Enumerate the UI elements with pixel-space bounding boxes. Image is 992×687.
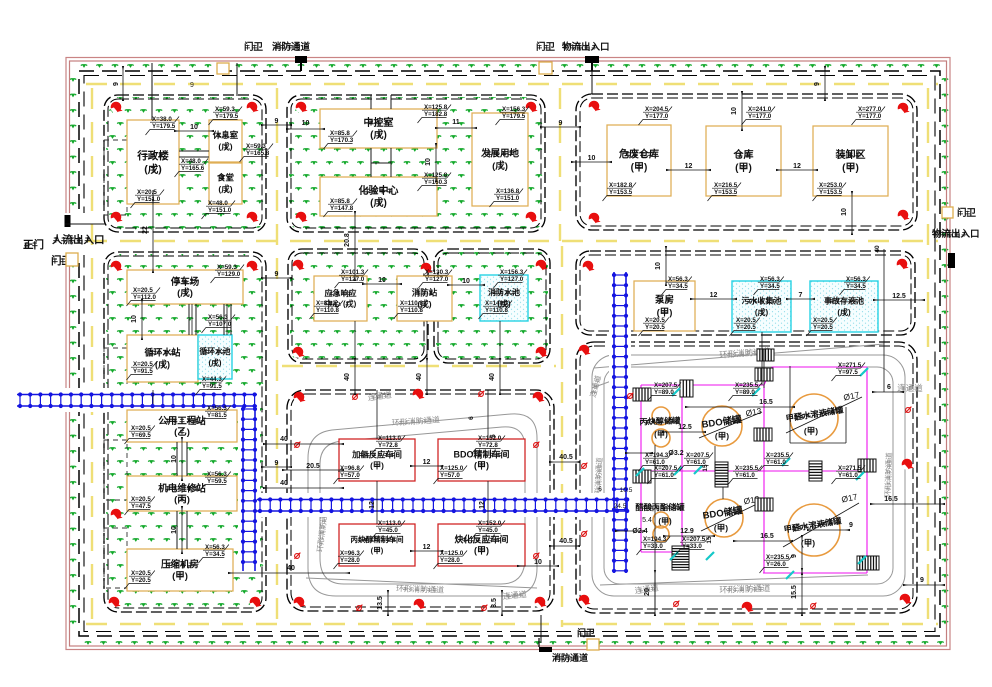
block E1 outline <box>288 249 428 363</box>
svg-text:X=235.5: X=235.5 <box>735 382 759 389</box>
svg-text:X=130.3: X=130.3 <box>425 269 449 276</box>
coordinate label X=271.5 Y=61.0 <box>832 466 866 485</box>
svg-text:X=20.5: X=20.5 <box>133 287 153 294</box>
site boundary (pink double line) <box>66 58 950 650</box>
svg-text:12.5: 12.5 <box>678 424 692 431</box>
fire hydrant H9 <box>589 101 601 112</box>
svg-text:6: 6 <box>887 384 891 391</box>
coordinate label X=44.3 Y=91.5 <box>196 377 226 396</box>
coordinate label X=56.3 Y=81.5 <box>201 406 231 425</box>
svg-text:12.5: 12.5 <box>892 293 906 300</box>
svg-text:X=113.0: X=113.0 <box>378 520 401 527</box>
coordinate label X=253.0 Y=153.5 <box>813 183 847 202</box>
svg-text:门卫: 门卫 <box>957 207 977 219</box>
svg-text:X=83.3: X=83.3 <box>316 300 336 307</box>
svg-text:正门: 正门 <box>23 238 44 251</box>
svg-text:X=271.5: X=271.5 <box>838 362 862 369</box>
svg-text:40: 40 <box>489 373 496 381</box>
lawn block A <box>106 97 264 230</box>
svg-text:12: 12 <box>423 544 431 551</box>
pipe rack vertical 2 (tank farm) <box>612 272 628 573</box>
svg-text:Y=153.5: Y=153.5 <box>819 189 843 196</box>
svg-text:X=56.3: X=56.3 <box>207 471 227 478</box>
svg-text:X=235.5: X=235.5 <box>735 465 759 472</box>
svg-text:泵房: 泵房 <box>654 294 674 306</box>
hose point O3 <box>294 442 300 448</box>
svg-text:9: 9 <box>814 82 821 86</box>
building 机电维修站 <box>127 476 237 511</box>
loading pad P4 <box>757 349 774 361</box>
building 食堂 <box>209 163 242 204</box>
hose point O11 <box>673 601 679 607</box>
svg-text:X=56.3: X=56.3 <box>205 544 225 551</box>
svg-text:Y=34.5: Y=34.5 <box>205 551 225 558</box>
svg-text:9: 9 <box>113 82 120 86</box>
svg-text:12: 12 <box>685 163 693 170</box>
svg-text:Y=170.3: Y=170.3 <box>330 137 354 144</box>
coordinate label X=56.3 Y=34.5 <box>840 277 870 296</box>
loading pad P12 <box>857 556 879 570</box>
svg-text:Y=165.8: Y=165.8 <box>246 150 270 157</box>
block F outline (production) <box>287 390 554 611</box>
svg-text:16.5: 16.5 <box>884 496 898 503</box>
svg-text:X=59.3: X=59.3 <box>217 264 237 271</box>
svg-text:门卫: 门卫 <box>244 41 264 53</box>
coordinate label X=20.5 Y=69.5 <box>125 426 155 445</box>
fire hydrant H5 <box>296 102 308 113</box>
svg-text:X=20.5: X=20.5 <box>813 317 833 324</box>
tank BDO储罐 2 <box>705 499 743 537</box>
svg-text:40: 40 <box>416 373 423 381</box>
svg-text:9: 9 <box>275 460 279 467</box>
svg-text:门卫: 门卫 <box>577 627 595 638</box>
coordinate label X=156.3 Y=127.0 <box>494 270 528 289</box>
svg-text:X=101.3: X=101.3 <box>341 269 365 276</box>
fire hydrant H1 <box>111 102 123 113</box>
svg-text:X=59.3: X=59.3 <box>215 106 235 113</box>
coordinate label X=20.5 Y=47.5 <box>125 497 155 516</box>
svg-text:X=20.5: X=20.5 <box>736 317 756 324</box>
svg-text:Y=34.5: Y=34.5 <box>668 283 688 290</box>
survey tick T7 <box>856 472 864 480</box>
building 化验中心 <box>320 177 437 216</box>
coordinate label X=20.5 Y=151.0 <box>131 190 165 209</box>
coordinate label X=56.3 Y=34.5 <box>662 277 692 296</box>
svg-text:X=56.3: X=56.3 <box>207 405 227 412</box>
coordinate label X=101.3 Y=127.0 <box>335 270 369 289</box>
svg-text:Y=72.8: Y=72.8 <box>478 442 498 449</box>
tank 甲醛水溶液储罐 1 <box>790 394 838 442</box>
svg-text:Y=165.6: Y=165.6 <box>181 165 205 172</box>
gate right 门卫/物流出入口 <box>942 207 953 218</box>
coordinate label X=152.0 Y=72.8 <box>472 436 506 455</box>
svg-text:物流出入口: 物流出入口 <box>932 228 980 240</box>
fire hydrant H6 <box>526 102 538 113</box>
coordinate label X=140.3 Y=110.8 <box>479 301 513 320</box>
hose point O7 <box>356 605 362 611</box>
svg-text:12: 12 <box>793 163 801 170</box>
fire hydrant H2 <box>247 102 259 113</box>
coordinate label X=235.5 Y=61.0 <box>760 453 794 472</box>
svg-text:化验中心: 化验中心 <box>359 184 399 197</box>
svg-text:Y=182.8: Y=182.8 <box>424 111 448 118</box>
svg-text:Y=151.0: Y=151.0 <box>137 196 161 203</box>
survey tick T9 <box>706 552 714 560</box>
hose point O13 <box>905 407 911 413</box>
svg-text:消防通道: 消防通道 <box>272 41 311 53</box>
coordinate label X=85.8 Y=147.8 <box>324 199 358 218</box>
svg-text:X=207.5: X=207.5 <box>654 382 678 389</box>
coordinate label X=96.3 Y=28.0 <box>334 551 364 570</box>
svg-text:X=253.0: X=253.0 <box>819 182 843 189</box>
svg-text:X=194.3: X=194.3 <box>645 452 669 459</box>
svg-text:Y=151.0: Y=151.0 <box>496 195 520 202</box>
svg-text:10: 10 <box>378 277 386 284</box>
svg-text:10: 10 <box>302 120 310 127</box>
fire hydrant H10 <box>898 103 910 114</box>
svg-text:Y=47.5: Y=47.5 <box>131 503 151 510</box>
lane labels (gray) <box>392 414 441 427</box>
coordinate label X=59.3 Y=165.8 <box>240 144 274 163</box>
fire hydrant H17 <box>250 597 262 608</box>
svg-text:40: 40 <box>280 480 288 487</box>
coordinate label X=59.3 Y=179.5 <box>209 107 243 126</box>
svg-text:X=235.5: X=235.5 <box>766 452 790 459</box>
svg-text:X=204.5: X=204.5 <box>645 106 669 113</box>
svg-text:X=152.0: X=152.0 <box>478 520 502 527</box>
svg-text:X=182.8: X=182.8 <box>609 182 633 189</box>
svg-text:丙炔醇储罐: 丙炔醇储罐 <box>639 415 681 426</box>
pipe rack vertical 1 <box>241 406 257 571</box>
fire hydrant H31 <box>579 345 591 356</box>
loading pad P6 <box>715 462 728 487</box>
fire hydrant H4 <box>247 212 259 223</box>
svg-text:10: 10 <box>190 124 198 131</box>
svg-text:X=38.0: X=38.0 <box>152 116 172 123</box>
coordinate label X=20.5 Y=20.5 <box>807 318 837 337</box>
svg-text:12: 12 <box>710 292 718 299</box>
svg-text:40.5: 40.5 <box>559 538 573 545</box>
svg-text:X=136.8: X=136.8 <box>496 188 520 195</box>
svg-text:Y=20.5: Y=20.5 <box>736 324 756 331</box>
svg-text:13.5: 13.5 <box>377 596 384 610</box>
svg-text:Y=110.8: Y=110.8 <box>485 307 508 314</box>
building 仓库 <box>706 126 781 196</box>
svg-text:X=235.5: X=235.5 <box>766 554 790 561</box>
fire hydrant H33 <box>900 594 912 605</box>
svg-text:X=156.3: X=156.3 <box>502 106 526 113</box>
loading pad P10 <box>858 459 876 472</box>
svg-text:Y=160.3: Y=160.3 <box>424 179 448 186</box>
fire hydrant H30 <box>897 259 909 270</box>
pool 事故存液池 <box>810 281 878 332</box>
svg-text:9: 9 <box>559 120 563 127</box>
block G outline <box>576 251 915 335</box>
svg-text:9: 9 <box>275 118 279 125</box>
svg-text:12: 12 <box>423 459 431 466</box>
coordinate label X=110.8 Y=110.8 <box>394 301 428 320</box>
svg-text:X=96.8: X=96.8 <box>340 465 360 472</box>
site road edge (dashed) <box>79 71 940 636</box>
loading pad P7 <box>633 470 651 483</box>
svg-text:Y=97.5: Y=97.5 <box>838 369 858 376</box>
svg-text:X=207.5: X=207.5 <box>654 465 678 472</box>
svg-text:压缩机房: 压缩机房 <box>161 559 199 571</box>
svg-text:X=20.5: X=20.5 <box>131 570 151 577</box>
svg-text:9: 9 <box>190 82 194 89</box>
loading pad P11 <box>672 546 689 570</box>
svg-text:X=44.3: X=44.3 <box>202 376 222 383</box>
svg-text:X=56.3: X=56.3 <box>846 276 866 283</box>
hose point O2 <box>478 391 484 397</box>
svg-text:X=125.8: X=125.8 <box>424 104 448 111</box>
lawn block E2 <box>436 251 548 361</box>
pool 循环水池 <box>198 335 232 379</box>
svg-text:Y=61.0: Y=61.0 <box>686 459 706 466</box>
coordinate label X=235.5 Y=26.0 <box>760 555 794 574</box>
workshop BDO精制车间 <box>438 439 525 481</box>
hose point O4 <box>294 553 300 559</box>
svg-text:Y=177.0: Y=177.0 <box>645 113 669 120</box>
survey tick T6 <box>782 458 790 466</box>
fire hydrant H35 <box>742 602 754 613</box>
svg-text:9: 9 <box>920 577 924 584</box>
svg-text:Y=89.0: Y=89.0 <box>654 389 674 396</box>
svg-text:Y=151.0: Y=151.0 <box>208 207 232 214</box>
hose point O1 <box>352 394 358 400</box>
block D outline <box>104 252 266 612</box>
svg-text:Y=179.5: Y=179.5 <box>215 113 239 120</box>
building 休息室 <box>209 120 242 162</box>
gate leader lines <box>65 63 592 643</box>
survey tick T2 <box>752 388 760 396</box>
svg-text:X=56.3: X=56.3 <box>760 276 780 283</box>
svg-text:X=140.3: X=140.3 <box>485 300 509 307</box>
svg-text:X=20.5: X=20.5 <box>131 496 151 503</box>
svg-text:Y=72.8: Y=72.8 <box>378 442 398 449</box>
svg-text:循环水站: 循环水站 <box>144 347 180 358</box>
survey tick T3 <box>860 368 868 376</box>
fire hydrant H29 <box>583 261 595 272</box>
coordinate label X=85.8 Y=170.3 <box>324 131 358 150</box>
svg-text:Y=153.5: Y=153.5 <box>609 189 633 196</box>
svg-text:22: 22 <box>142 226 149 234</box>
block A outline <box>104 95 266 232</box>
svg-text:10: 10 <box>462 278 470 285</box>
ring fire lane block F <box>306 414 537 596</box>
svg-text:消防通道: 消防通道 <box>552 652 588 663</box>
svg-text:门卫: 门卫 <box>536 41 556 53</box>
svg-text:物流出入口: 物流出入口 <box>562 41 610 53</box>
coordinate label X=96.8 Y=57.0 <box>334 466 364 485</box>
svg-text:Y=107.0: Y=107.0 <box>208 321 232 328</box>
svg-text:X=48.0: X=48.0 <box>208 200 228 207</box>
hose point O8 <box>481 605 487 611</box>
loading pad P2 <box>680 380 693 397</box>
svg-text:6: 6 <box>468 416 475 420</box>
svg-text:Y=177.0: Y=177.0 <box>858 113 882 120</box>
tank 甲醛水溶液储罐 2 <box>788 504 840 556</box>
coordinate label X=156.3 Y=179.5 <box>496 107 530 126</box>
hose point O12 <box>810 603 816 609</box>
coordinate label X=216.5 Y=153.5 <box>708 183 742 202</box>
block H outline (tank farm) <box>576 342 917 613</box>
block E2 outline <box>434 249 550 363</box>
coordinate label X=207.5 Y=61.0 <box>648 466 682 485</box>
building 公用工程站 <box>127 410 237 442</box>
svg-text:X=20.5: X=20.5 <box>137 189 157 196</box>
svg-text:X=125.8: X=125.8 <box>424 172 448 179</box>
coordinate label X=204.5 Y=177.0 <box>639 107 673 126</box>
coordinate label X=20.5 Y=112.0 <box>127 288 161 307</box>
coordinate label X=48.0 Y=165.6 <box>175 159 209 178</box>
pipe rack west horizontal <box>17 392 257 408</box>
svg-text:发展用地: 发展用地 <box>480 148 520 160</box>
fire hydrant H8 <box>526 212 538 223</box>
svg-text:5.4: 5.4 <box>642 517 652 524</box>
road centerlines (yellow) <box>86 84 938 627</box>
svg-text:6: 6 <box>598 486 602 493</box>
svg-text:应急响应: 应急响应 <box>325 288 357 298</box>
coordinate label X=20.5 Y=20.5 <box>639 318 669 337</box>
coordinate label X=194.3 Y=33.0 <box>637 537 671 556</box>
svg-text:Y=127.0: Y=127.0 <box>500 276 524 283</box>
svg-text:环形消防通道: 环形消防通道 <box>396 583 444 595</box>
svg-text:X=56.3: X=56.3 <box>208 314 228 321</box>
svg-text:X=277.0: X=277.0 <box>858 106 882 113</box>
fire hydrant H15 <box>111 509 123 520</box>
svg-text:40: 40 <box>287 565 295 572</box>
svg-text:炔化反应车间: 炔化反应车间 <box>454 534 508 545</box>
fire hydrant H3 <box>111 212 123 223</box>
fire hydrant H28 <box>535 597 547 608</box>
svg-text:10: 10 <box>425 158 432 166</box>
parking bays block A <box>104 140 127 588</box>
dike walls (magenta) <box>641 367 867 573</box>
workshop 炔化反应车间 <box>438 524 525 566</box>
coordinate label X=235.5 Y=61.0 <box>729 466 763 485</box>
coordinate label X=56.3 Y=34.5 <box>199 545 229 564</box>
coordinate label X=59.3 Y=129.0 <box>211 265 245 284</box>
fire hydrant H14 <box>247 261 259 272</box>
survey tick T10 <box>786 571 794 579</box>
svg-text:装卸区: 装卸区 <box>835 148 866 161</box>
svg-text:Y=57.0: Y=57.0 <box>340 472 360 479</box>
hose point O6 <box>533 553 539 559</box>
building 循环水站 <box>127 335 198 382</box>
building 应急响应中心 <box>314 276 367 321</box>
svg-text:9: 9 <box>275 271 279 278</box>
svg-text:X=20.5: X=20.5 <box>131 425 151 432</box>
coordinate label X=277.0 Y=177.0 <box>852 107 886 126</box>
building 停车场 <box>127 270 243 304</box>
fire hydrant H12 <box>898 210 910 221</box>
svg-text:X=59.3: X=59.3 <box>246 143 266 150</box>
svg-text:24.5: 24.5 <box>614 503 627 510</box>
lawn block B <box>289 97 543 230</box>
fire hydrant H23 <box>294 392 306 403</box>
svg-text:Y=129.0: Y=129.0 <box>217 271 241 278</box>
svg-text:消防水池: 消防水池 <box>488 287 520 297</box>
svg-text:10.5: 10.5 <box>620 487 633 494</box>
svg-text:Y=59.5: Y=59.5 <box>207 478 227 485</box>
block B outline <box>287 95 545 232</box>
building 泵房 <box>634 281 695 331</box>
svg-text:环形消防通道: 环形消防通道 <box>719 583 771 595</box>
svg-text:X=125.0: X=125.0 <box>440 465 464 472</box>
coordinate label X=125.8 Y=160.3 <box>418 173 452 192</box>
building 压缩机房 <box>127 549 233 591</box>
coordinate label X=48.0 Y=151.0 <box>202 201 236 220</box>
coordinate label X=38.0 Y=179.5 <box>146 117 180 136</box>
svg-text:Y=91.5: Y=91.5 <box>202 383 222 390</box>
svg-text:15: 15 <box>706 536 713 544</box>
pool 消防水池 <box>480 275 528 321</box>
fire hydrant H21 <box>536 347 548 358</box>
svg-text:Y=112.0: Y=112.0 <box>133 294 156 301</box>
fire hydrant H32 <box>579 595 591 606</box>
svg-text:X=271.5: X=271.5 <box>838 465 862 472</box>
survey tick T5 <box>674 467 682 475</box>
svg-text:Y=34.5: Y=34.5 <box>760 283 780 290</box>
workshop 加氢反应车间 <box>339 439 415 481</box>
svg-text:Y=61.0: Y=61.0 <box>654 472 674 479</box>
tank 丙炔醇储罐 <box>652 407 670 425</box>
survey tick T11 <box>694 466 702 474</box>
svg-text:40: 40 <box>874 245 881 253</box>
svg-text:Y=89.0: Y=89.0 <box>735 389 755 396</box>
svg-text:Y=110.8: Y=110.8 <box>316 307 339 314</box>
svg-text:Y=28.0: Y=28.0 <box>340 557 360 564</box>
gate left 正门/人流出入口/门卫 <box>60 213 86 255</box>
svg-text:X=216.5: X=216.5 <box>714 182 738 189</box>
svg-text:Y=45.0: Y=45.0 <box>478 527 498 534</box>
svg-text:X=113.0: X=113.0 <box>378 435 401 442</box>
tank 醋酸丙酯储罐 <box>653 512 669 528</box>
coordinate label X=207.5 Y=33.0 <box>676 537 710 556</box>
coordinate label X=125.0 Y=28.0 <box>434 551 468 570</box>
svg-text:Y=91.5: Y=91.5 <box>133 368 153 375</box>
svg-text:Y=34.5: Y=34.5 <box>846 283 866 290</box>
coordinate label X=207.5 Y=89.0 <box>648 383 682 402</box>
coordinate label X=130.3 Y=127.0 <box>419 270 453 289</box>
fire hydrant H24 <box>413 389 425 400</box>
fire hydrant H26 <box>294 597 306 608</box>
svg-text:Y=20.5: Y=20.5 <box>813 324 833 331</box>
coordinate label X=83.3 Y=110.8 <box>310 301 344 320</box>
svg-text:环形消防通道: 环形消防通道 <box>882 452 894 498</box>
loading pad P8 <box>755 498 773 511</box>
svg-text:12.9: 12.9 <box>680 528 694 535</box>
coordinate label X=136.8 Y=151.0 <box>490 189 524 208</box>
svg-text:X=207.5: X=207.5 <box>682 536 706 543</box>
svg-text:20.5: 20.5 <box>306 463 320 470</box>
svg-text:Y=26.0: Y=26.0 <box>766 561 786 568</box>
svg-text:X=194.3: X=194.3 <box>643 536 667 543</box>
svg-text:X=56.3: X=56.3 <box>668 276 688 283</box>
svg-text:Y=45.0: Y=45.0 <box>378 527 398 534</box>
coordinate label X=56.3 Y=107.0 <box>202 315 236 334</box>
dimensions <box>176 130 212 132</box>
boundary planting rows <box>81 64 88 68</box>
workshop 丙炔醇精制车间 <box>339 524 415 566</box>
fire hydrant H20 <box>293 347 305 358</box>
lawn block D <box>106 254 264 610</box>
svg-text:X=207.5: X=207.5 <box>686 452 710 459</box>
svg-text:X=20.5: X=20.5 <box>645 317 665 324</box>
svg-text:11: 11 <box>452 119 460 126</box>
survey tick T8 <box>670 552 678 560</box>
